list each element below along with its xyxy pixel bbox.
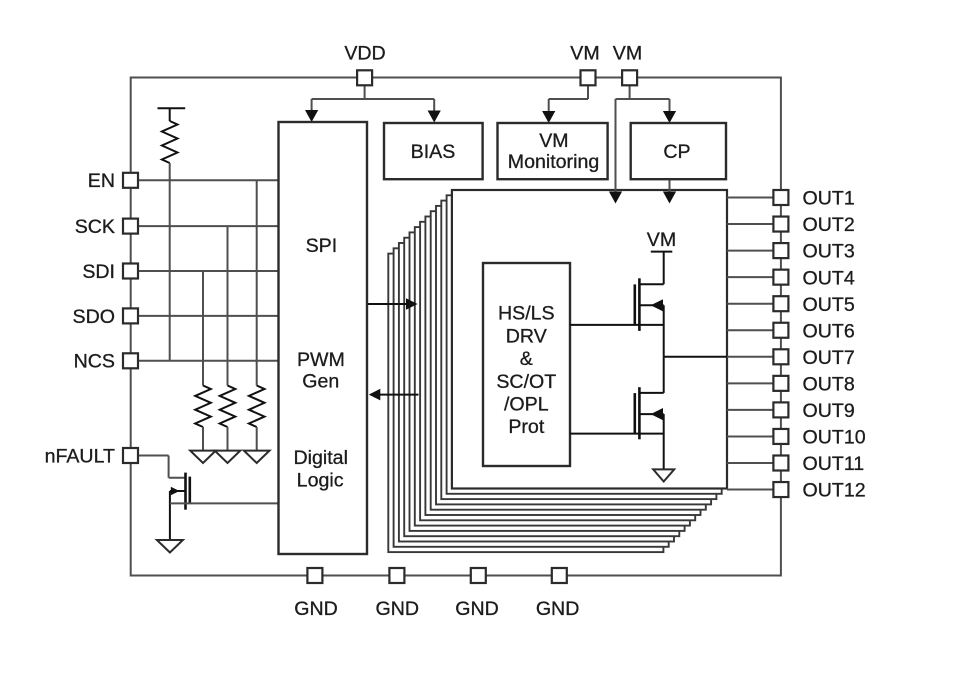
svg-text:OUT12: OUT12 [803,480,866,502]
svg-text:PWM: PWM [297,349,345,371]
svg-text:VM: VM [570,43,599,65]
svg-text:SCK: SCK [75,216,115,238]
svg-text:nFAULT: nFAULT [45,445,115,467]
svg-text:/OPL: /OPL [504,394,549,416]
svg-text:SC/OT: SC/OT [496,371,556,393]
svg-text:OUT7: OUT7 [803,347,855,369]
svg-text:VM: VM [539,130,568,152]
svg-text:&: & [520,348,533,370]
svg-text:OUT2: OUT2 [803,214,855,236]
svg-text:GND: GND [294,598,338,620]
svg-text:Monitoring: Monitoring [508,151,599,173]
svg-text:NCS: NCS [74,351,115,373]
svg-text:OUT1: OUT1 [803,188,855,210]
svg-text:CP: CP [663,141,690,163]
svg-text:Logic: Logic [297,470,344,492]
svg-text:OUT5: OUT5 [803,294,855,316]
svg-text:VM: VM [647,229,676,251]
svg-text:OUT3: OUT3 [803,241,855,263]
svg-text:OUT4: OUT4 [803,267,855,289]
svg-text:DRV: DRV [506,325,547,347]
svg-text:SPI: SPI [306,235,338,257]
svg-text:VDD: VDD [344,43,385,65]
svg-text:Gen: Gen [302,370,339,392]
svg-text:BIAS: BIAS [411,141,456,163]
svg-text:GND: GND [536,598,580,620]
svg-text:Digital: Digital [293,447,347,469]
svg-text:HS/LS: HS/LS [498,303,555,325]
svg-text:OUT11: OUT11 [803,453,865,475]
svg-text:EN: EN [88,170,115,192]
svg-text:SDO: SDO [73,306,115,328]
svg-text:GND: GND [376,598,420,620]
svg-text:OUT8: OUT8 [803,373,855,395]
svg-text:SDI: SDI [82,261,115,283]
svg-text:OUT6: OUT6 [803,320,855,342]
svg-text:OUT9: OUT9 [803,400,855,422]
svg-text:VM: VM [613,43,642,65]
svg-text:GND: GND [455,598,499,620]
svg-text:OUT10: OUT10 [803,427,866,449]
svg-text:Prot: Prot [508,416,544,438]
